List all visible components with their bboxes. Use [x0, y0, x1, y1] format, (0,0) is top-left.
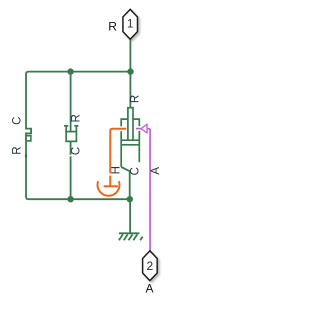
svg-text:A: A — [150, 167, 162, 175]
signal wire (purple): stub into damper — [136, 128, 141, 130]
node N1 junction dot — [127, 68, 133, 74]
thermal reference icon: T-bar — [104, 185, 118, 187]
thermal reference icon: arc — [98, 181, 120, 196]
signal wire (purple): run to port 2 — [147, 129, 150, 251]
signal wire (purple): arrowhead — [141, 124, 147, 133]
port 1 hexagon — [123, 9, 138, 39]
svg-text:C: C — [129, 167, 141, 175]
damper icon (middle branch): piston bar — [65, 131, 77, 133]
svg-text:H: H — [111, 166, 123, 174]
wire: top rail N1-to-corner plus left rail, with capacitor C icon jog — [26, 72, 131, 200]
wire: middle branch lower (damper to node N3, with port gap) — [70, 141, 72, 199]
damper U1 (right): cylinder left wall with top flange — [121, 119, 128, 167]
ground reference symbol — [119, 233, 143, 240]
svg-text:R: R — [130, 95, 142, 103]
svg-text:A: A — [145, 282, 153, 296]
svg-text:C: C — [12, 117, 24, 125]
wire: node N1 down to damper rod (right branch) — [129, 72, 131, 108]
wire: node N4 down to ground — [129, 199, 131, 233]
left rail port overlap tick — [25, 154, 27, 157]
damper U1 (right): piston rod outline — [128, 108, 133, 141]
node N4 junction dot — [127, 196, 133, 202]
svg-text:R: R — [108, 20, 117, 34]
svg-text:R: R — [12, 146, 24, 154]
damper U1 (right): piston bars — [121, 140, 139, 145]
svg-text:C: C — [70, 147, 82, 155]
wire (thermal, orange): white halo over cylinder wall crossing — [115, 126, 125, 131]
node N2 junction dot — [67, 68, 73, 74]
wire: bottom rail node N3 to node N4 — [71, 198, 130, 200]
damper U1 (right): cylinder right wall with top flange — [133, 119, 139, 162]
signal wire (purple): white halo over cylinder wall crossing — [137, 126, 141, 131]
svg-text:1: 1 — [127, 19, 133, 31]
port 2 hexagon — [143, 251, 158, 281]
wire: port 1 stub to node N1 — [129, 39, 131, 71]
wire: middle branch upper (node N2 down into damper) — [70, 72, 72, 132]
wire (thermal, orange): rod H connection — [110, 129, 126, 186]
wire: damper case diagonal down to node N4 — [121, 167, 130, 199]
damper icon (middle branch): cylinder cup — [64, 126, 78, 141]
node N3 junction dot — [67, 196, 73, 202]
resistor R icon bump (left branch block R) — [26, 136, 31, 141]
svg-text:2: 2 — [147, 259, 154, 273]
svg-text:R: R — [71, 114, 83, 122]
